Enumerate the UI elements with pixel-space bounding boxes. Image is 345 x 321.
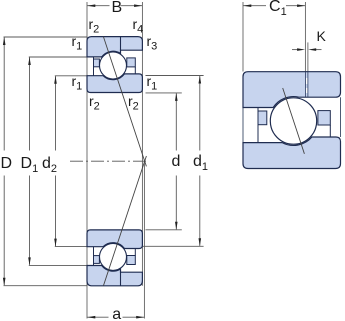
svg-text:r4: r4 bbox=[133, 16, 144, 36]
svg-text:C1: C1 bbox=[269, 0, 287, 18]
dimension C1 horizontal bbox=[243, 5, 305, 7]
extension line C1 right / K left line bbox=[304, 2, 306, 97]
extension line D1 bottom bbox=[29, 264, 87, 266]
outer ring bottom section bbox=[87, 266, 142, 286]
contact angle line right figure bbox=[283, 88, 305, 154]
contact angle line top bbox=[103, 37, 146, 167]
extension line B right (face line) bbox=[141, 2, 143, 286]
ball top section bbox=[100, 52, 127, 79]
svg-text:d2: d2 bbox=[42, 155, 57, 175]
outer ring counterbore divider line bottom bbox=[120, 272, 122, 285]
extension line d bottom bbox=[146, 229, 182, 231]
outer ring top section bbox=[87, 37, 142, 57]
inner ring top section bbox=[87, 74, 142, 93]
outer ring right figure bbox=[243, 72, 341, 108]
right figure right face line bbox=[340, 97, 342, 137]
extension line d1 bottom bbox=[142, 245, 203, 247]
arrow d bbox=[175, 93, 178, 230]
right figure left face line bbox=[242, 108, 244, 143]
cage pocket right (top section) bbox=[134, 67, 136, 74]
extension line d1 top bbox=[146, 75, 204, 77]
dimension K arrows bbox=[292, 49, 298, 51]
cage guide line below right pocket bbox=[329, 125, 331, 137]
ball bottom section bbox=[100, 243, 127, 270]
ball right figure bbox=[270, 98, 316, 144]
svg-text:r1: r1 bbox=[72, 33, 83, 53]
dimension line d1 vertical bbox=[199, 76, 201, 246]
extension line D1 top bbox=[29, 56, 87, 58]
outer ring counterbore divider line bbox=[120, 37, 122, 50]
cage pocket left (bottom section) bbox=[93, 247, 95, 266]
arrow B left bbox=[87, 4, 142, 7]
svg-text:K: K bbox=[317, 28, 327, 44]
extension line d top bbox=[146, 92, 182, 94]
lubrication hole edge lines through outer ring bbox=[305, 72, 308, 97]
centreline axis bbox=[70, 160, 147, 162]
svg-text:B: B bbox=[112, 0, 123, 16]
extension line D top bbox=[4, 36, 88, 38]
dimension line D vertical bbox=[3, 37, 5, 285]
arrow d2 bbox=[54, 76, 57, 247]
dimension B horizontal top bbox=[87, 5, 142, 7]
arrow C1 left bbox=[243, 4, 305, 7]
svg-text:r2: r2 bbox=[89, 93, 100, 113]
arrow D up bbox=[3, 37, 6, 286]
svg-text:r2: r2 bbox=[89, 16, 100, 36]
contact angle line bottom bbox=[103, 156, 146, 286]
arrow D1 bbox=[28, 57, 31, 265]
svg-text:d: d bbox=[172, 153, 181, 170]
cage pocket left (right figure) bbox=[257, 108, 259, 143]
extension line B left (face line) bbox=[86, 2, 88, 319]
svg-text:r2: r2 bbox=[128, 93, 139, 113]
inner ring right figure bbox=[243, 137, 341, 169]
dimension line d2 vertical bbox=[55, 76, 57, 246]
inner ring bottom section bbox=[87, 230, 142, 249]
svg-text:D1: D1 bbox=[21, 155, 39, 175]
lubrication hole white dashes in outer ring bbox=[306, 78, 308, 93]
dimension line d vertical bbox=[175, 93, 177, 229]
extension line d2 top bbox=[55, 75, 87, 77]
cage pocket right (right figure) bbox=[318, 111, 330, 125]
svg-text:a: a bbox=[112, 306, 121, 321]
dimension a horizontal bottom bbox=[87, 316, 145, 318]
K right line bbox=[307, 42, 309, 96]
svg-text:D: D bbox=[1, 155, 13, 172]
cage pocket left (top section) bbox=[93, 57, 95, 76]
arrow a left bbox=[87, 316, 144, 319]
cage pocket right (bottom section) bbox=[134, 249, 136, 256]
svg-text:d1: d1 bbox=[193, 153, 208, 173]
arrow K right pointing left bbox=[308, 48, 316, 51]
extension line a right (pressure centre) bbox=[143, 161, 145, 318]
svg-text:r3: r3 bbox=[147, 33, 158, 53]
arrow K left pointing right bbox=[297, 48, 305, 51]
extension line d2 bottom bbox=[55, 246, 87, 248]
arrow d1 bbox=[199, 76, 202, 247]
dimension line D1 vertical bbox=[29, 57, 31, 264]
extension line D bottom bbox=[4, 285, 88, 287]
extension line C1 left bbox=[242, 2, 244, 72]
